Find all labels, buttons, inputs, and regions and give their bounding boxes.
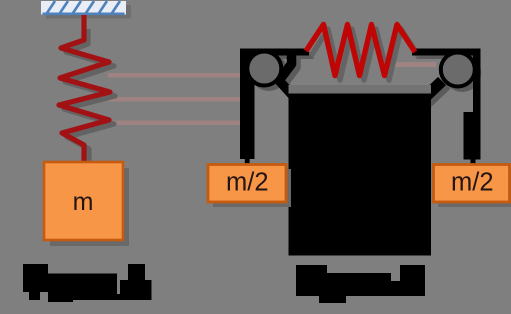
faint guide line 2 bbox=[108, 97, 242, 102]
faint guide line 3 bbox=[108, 121, 242, 126]
mass m box bbox=[44, 162, 123, 240]
right hanging mass m/2 box bbox=[434, 165, 510, 203]
faint guide line 4 (right figure) bbox=[394, 62, 436, 67]
left hanging mass m/2 shadow bbox=[213, 169, 291, 207]
central block (table) bbox=[289, 94, 432, 256]
right vertical string upper part bbox=[473, 49, 481, 113]
mass m shadow bbox=[50, 168, 129, 246]
top string left segment bbox=[240, 49, 309, 56]
top string right segment bbox=[412, 49, 481, 56]
right pulley bracket bbox=[420, 81, 442, 102]
svg-text:m/2: m/2 bbox=[451, 169, 494, 197]
ceiling (hatched support) bbox=[41, 1, 126, 15]
figure 2 caption blob bbox=[296, 265, 425, 303]
svg-text:m: m bbox=[73, 188, 94, 216]
right vertical string lower part bbox=[464, 112, 481, 160]
right string lower nub bbox=[471, 158, 476, 165]
spring S2 shadow bbox=[311, 29, 419, 80]
left vertical string bbox=[240, 49, 255, 160]
left hanging mass m/2 box bbox=[208, 165, 286, 203]
right pulley bbox=[441, 53, 475, 87]
spring S1 shadow bbox=[64, 29, 115, 166]
left pulley bracket bbox=[279, 52, 293, 96]
block top ghost band bbox=[289, 85, 432, 94]
right hanging mass m/2 shadow bbox=[438, 169, 511, 207]
ceiling shadow bbox=[46, 5, 131, 19]
figure 1 caption blob bbox=[23, 264, 152, 302]
spring S2 (figure 2, bright red) bbox=[306, 25, 415, 76]
left pulley bbox=[247, 52, 281, 86]
string and pulley shadows bbox=[245, 52, 482, 106]
left string lower nub bbox=[245, 158, 250, 165]
spring S1 (figure 1, dark red) bbox=[59, 15, 110, 163]
faint guide line 1 bbox=[108, 73, 242, 78]
svg-text:m/2: m/2 bbox=[226, 169, 269, 197]
